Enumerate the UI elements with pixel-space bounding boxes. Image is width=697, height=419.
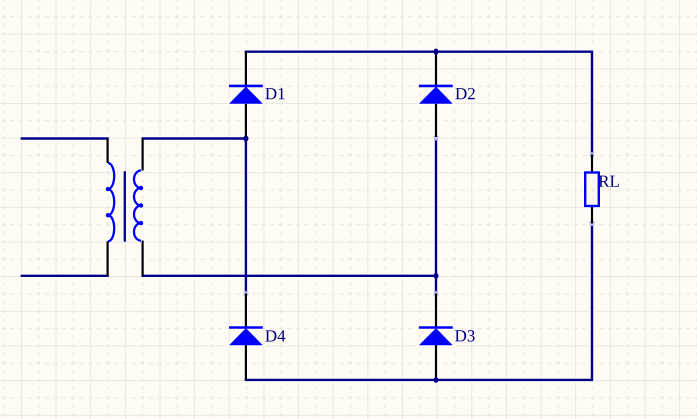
diode D2 [419, 52, 475, 137]
pin 1 (anode) of D1 [245, 104, 247, 137]
pin 2 (cathode) of D2 [435, 52, 437, 85]
triangle of D1 [229, 87, 263, 104]
secondary top pin [142, 139, 144, 171]
triangle of D2 [419, 87, 453, 104]
diode D4 [229, 294, 285, 380]
cathode bar of D4 [229, 326, 263, 329]
body of RL [585, 173, 599, 207]
wire node A down to D4 cathode pin [245, 139, 247, 294]
pin 1 (anode) of D2 [435, 104, 437, 137]
diode D3 [419, 294, 475, 380]
node junction dot bottom rail at D3 [434, 377, 439, 383]
label D2 [455, 88, 474, 99]
light halo under all strokes (screenshot resampling artifact) [21, 52, 599, 380]
wire secondary bottom to node B [142, 275, 437, 277]
wire right column RL bottom to bottom rail to D4 anode [245, 224, 592, 380]
triangle of D3 [419, 328, 453, 345]
pin 2 (cathode) of D4 [245, 294, 247, 327]
secondary winding [134, 171, 141, 241]
primary bottom pin [106, 241, 108, 275]
wire D2 anode pin down to D3 cathode pin [435, 138, 437, 294]
wire primary top left [21, 137, 109, 139]
wire primary bottom left [21, 275, 109, 277]
core [124, 171, 126, 241]
wire secondary top to node A [142, 137, 248, 139]
pin 1 of RL [591, 155, 593, 173]
primary winding [108, 163, 114, 241]
label D3 [455, 330, 475, 341]
label RL [599, 176, 619, 187]
node junction dot top rail at D2 [434, 49, 439, 55]
pin 1 (anode) of D4 [245, 345, 247, 380]
pin hotspot markers [244, 136, 595, 296]
cathode bar of D3 [419, 326, 453, 329]
label D1 [265, 88, 284, 99]
node B junction dot secondary bottom / D2 / D3 [434, 273, 439, 279]
pin 2 (cathode) of D1 [245, 52, 247, 85]
pin 1 (anode) of D3 [435, 345, 437, 380]
primary winding joint dots [106, 187, 110, 191]
secondary bottom pin [142, 241, 144, 276]
pin 2 of RL [591, 206, 593, 224]
secondary winding joint dots [139, 186, 143, 190]
diode D1 [229, 52, 285, 137]
wire top rail from D1/D2 cathodes to RL top [245, 52, 592, 155]
cathode bar of D2 [419, 85, 453, 88]
node A junction dot secondary top / D1 / D4 [243, 136, 248, 142]
pin 2 (cathode) of D3 [435, 294, 437, 327]
label D4 [265, 330, 285, 341]
resistor RL [585, 155, 619, 224]
transformer T1 [106, 139, 143, 276]
triangle of D4 [229, 328, 263, 345]
cathode bar of D1 [229, 85, 263, 88]
primary top pin [106, 139, 108, 164]
